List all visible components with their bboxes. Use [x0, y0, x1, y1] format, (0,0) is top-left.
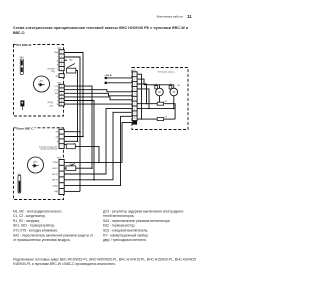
wire XP4.3 riser to XT8	[64, 108, 132, 174]
label heat curtain	[156, 70, 183, 73]
svg-text:5: 5	[61, 101, 62, 103]
svg-text:5: 5	[61, 68, 62, 70]
svg-text:ИК: ИК	[56, 132, 58, 134]
svg-text:4: 4	[134, 89, 135, 91]
remote control box Pult BBC-C (dashed enclosure)	[14, 128, 64, 200]
XP4 pin labels	[52, 162, 59, 193]
svg-text:2: 2	[61, 56, 62, 58]
svg-text:КОНТ 3: КОНТ 3	[52, 168, 58, 170]
LED HL1	[20, 100, 53, 110]
svg-text:ВКЛ: ВКЛ	[55, 93, 58, 95]
svg-text:11: 11	[187, 14, 192, 19]
svg-text:+: +	[57, 56, 58, 58]
mains stub wire N	[105, 82, 107, 84]
wire SA2 out down to XP3.3	[76, 71, 78, 142]
svg-text:ПУЛЬТ: ПУЛЬТ	[53, 162, 58, 164]
XP1 pin numbers	[61, 52, 62, 71]
wire XP3.1	[64, 131, 80, 133]
svg-text:Н15/Н20-PL и пультами BRC-W с: Н15/Н20-PL и пультами BRC-W с ВВС-С прои…	[13, 262, 116, 266]
svg-text:М1, М2 - электродвигатели вент: М1, М2 - электродвигатели вент.,	[13, 209, 63, 213]
XT1 terminal numbers	[134, 74, 136, 120]
svg-text:10: 10	[134, 118, 136, 120]
svg-text:Т: Т	[57, 100, 58, 102]
connector XP1	[59, 50, 64, 71]
wire XP4.4 riser to XT9	[64, 112, 132, 180]
wire XP4.5 riser to XT10	[64, 116, 132, 185]
connector XP2	[59, 84, 64, 106]
wire XP1.3 to switch	[64, 59, 67, 61]
svg-text:1: 1	[61, 52, 62, 54]
wire XP4.1 riser to XT end	[64, 123, 132, 163]
svg-text:двух / трехходового вентиля.: двух / трехходового вентиля.	[103, 238, 147, 242]
svg-text:–: –	[57, 146, 58, 148]
XP2 pin side labels	[54, 86, 58, 106]
svg-text:~220 В: ~220 В	[104, 75, 112, 77]
wire XP2.6 to XT	[64, 103, 132, 105]
svg-text:+5В: +5В	[55, 136, 59, 138]
svg-text:Тепловая завеса: Тепловая завеса	[158, 72, 176, 74]
svg-text:Подключение тепловых завес ВНС: Подключение тепловых завес ВНС-W10/W15-P…	[13, 257, 196, 261]
wire XP2.2 jog to XT	[64, 90, 132, 92]
wire XP2.5 down to XP4.4	[64, 101, 94, 180]
connector XP4	[59, 160, 64, 195]
IR transmitter DU2	[28, 157, 44, 173]
svg-text:ДУ2 - регулятор задержки выклю: ДУ2 - регулятор задержки выключения элек…	[103, 209, 184, 213]
connector XP3	[59, 129, 64, 148]
svg-text:2: 2	[61, 90, 62, 92]
svg-text:ОБЩ: ОБЩ	[54, 52, 58, 54]
label PU1 BRC-W	[16, 43, 33, 46]
junction dots	[77, 131, 100, 181]
svg-text:SQ1 - концевой выключатель,: SQ1 - концевой выключатель,	[103, 229, 148, 233]
IR receiver DU1	[34, 76, 50, 92]
battery GB1	[17, 174, 21, 193]
svg-text:ДУ2: ДУ2	[34, 162, 39, 164]
closing paragraph	[13, 257, 196, 266]
wire XP2.4 jog to XT	[64, 97, 132, 100]
wire XP4.2 to switch SA3	[64, 167, 66, 169]
resistor R1	[157, 102, 163, 105]
svg-text:ПУ1 BRC-W: ПУ1 BRC-W	[16, 43, 32, 47]
svg-text:КВТ (С): КВТ (С)	[52, 174, 58, 176]
switch SA1	[20, 56, 25, 74]
svg-text:1: 1	[134, 74, 135, 76]
XP2 pin numbers	[61, 86, 62, 106]
svg-text:ПУ - коммутационный прибор: ПУ - коммутационный прибор	[103, 233, 148, 237]
wire XP1.1 down to XP3.2	[64, 53, 83, 137]
wire XP2.3 jog to XT	[64, 93, 132, 96]
wire XP3.3	[64, 140, 77, 142]
resistor R2	[157, 118, 163, 121]
wire XP1.2 down to XP3.1	[64, 57, 80, 191]
svg-text:1: 1	[61, 86, 62, 88]
wire SA4 out to riser	[75, 146, 99, 162]
mains stub wire L	[105, 77, 107, 79]
svg-text:7: 7	[134, 103, 135, 105]
heat curtain box (dashed enclosure)	[132, 68, 188, 130]
svg-text:от промышленных установок возд: от промышленных установок воздуха,	[13, 238, 71, 242]
svg-text:управления BRC-W: управления BRC-W	[41, 149, 58, 151]
svg-text:3: 3	[134, 84, 135, 86]
svg-text:R1, R2 - нагрузка,: R1, R2 - нагрузка,	[13, 219, 40, 223]
svg-text:SA3 - переключатель режимов ве: SA3 - переключатель режимов вентилятора,	[103, 219, 170, 223]
XP3 pin labels	[55, 132, 59, 148]
svg-text:5: 5	[134, 94, 135, 96]
XP1 pin side labels	[54, 52, 59, 71]
svg-text:ПРД: ПРД	[51, 71, 55, 73]
terminal strip XT1	[132, 72, 137, 121]
remote control box PU1 BRC-W (dashed enclosure)	[14, 45, 64, 117]
svg-text:ХТ1-ХТ5 - колодка клеммная,: ХТ1-ХТ5 - колодка клеммная,	[13, 229, 58, 233]
svg-text:КВТ ПУ: КВТ ПУ	[52, 180, 59, 182]
svg-text:ДУ1: ДУ1	[40, 81, 45, 83]
svg-text:8: 8	[134, 108, 135, 110]
svg-text:LED: LED	[50, 106, 54, 108]
svg-text:1 СК: 1 СК	[54, 86, 58, 88]
heat curtain internal wires	[137, 74, 175, 119]
svg-text:Д: Д	[57, 141, 59, 143]
svg-text:SA2: SA2	[69, 58, 72, 61]
wire XP3.2	[64, 136, 83, 138]
svg-text:SA2 - переключатель включения: SA2 - переключатель включения режимов за…	[13, 233, 94, 237]
label Pult BBC-C	[16, 126, 35, 129]
svg-text:M2: M2	[178, 85, 181, 87]
svg-text:6: 6	[134, 99, 135, 101]
svg-text:Пульт ВВС-С: Пульт ВВС-С	[16, 126, 33, 130]
svg-text:2: 2	[134, 79, 135, 81]
svg-text:ИК: ИК	[56, 76, 58, 78]
svg-text:R1: R1	[165, 101, 167, 103]
svg-text:телей вентиляторов,: телей вентиляторов,	[103, 214, 134, 218]
legend left column	[13, 209, 94, 242]
svg-text:6: 6	[61, 104, 62, 106]
IR single pin cell	[59, 74, 64, 78]
svg-text:С: С	[57, 69, 59, 71]
svg-text:ВВС-С:: ВВС-С:	[13, 31, 25, 35]
svg-text:R2: R2	[165, 116, 167, 118]
svg-text:M1: M1	[153, 85, 156, 87]
svg-text:3: 3	[61, 60, 62, 62]
wire SA3 out	[76, 167, 92, 169]
svg-text:2 СК: 2 СК	[54, 90, 58, 92]
wire XP3.4 to switch SA4	[64, 143, 67, 145]
svg-text:9: 9	[134, 113, 135, 115]
svg-text:0: 0	[57, 97, 58, 99]
svg-text:ИЛ (Д): ИЛ (Д)	[48, 102, 54, 104]
svg-text:Схема электрическая принципиал: Схема электрическая принципиальная тепло…	[13, 26, 188, 30]
switch SA4	[67, 143, 75, 147]
svg-text:SK1, SK2 - терморегулятор,: SK1, SK2 - терморегулятор,	[13, 224, 55, 228]
svg-text:N (В): N (В)	[54, 191, 58, 193]
svg-text:4: 4	[61, 64, 62, 66]
svg-text:3: 3	[61, 93, 62, 95]
svg-text:Н: Н	[57, 104, 59, 106]
wire XP4.6 to riser	[64, 190, 80, 192]
svg-text:Монтажные работы: Монтажные работы	[157, 15, 183, 19]
svg-text:L (ВКЛ): L (ВКЛ)	[52, 185, 58, 187]
svg-text:4: 4	[61, 97, 62, 99]
svg-text:С1, С2 - конденсатор,: С1, С2 - конденсатор,	[13, 214, 46, 218]
wire XP2.1 down to SA3 out	[64, 86, 92, 168]
legend right column	[103, 209, 184, 242]
svg-text:ЕК2 - терморезистор,: ЕК2 - терморезистор,	[103, 224, 135, 228]
